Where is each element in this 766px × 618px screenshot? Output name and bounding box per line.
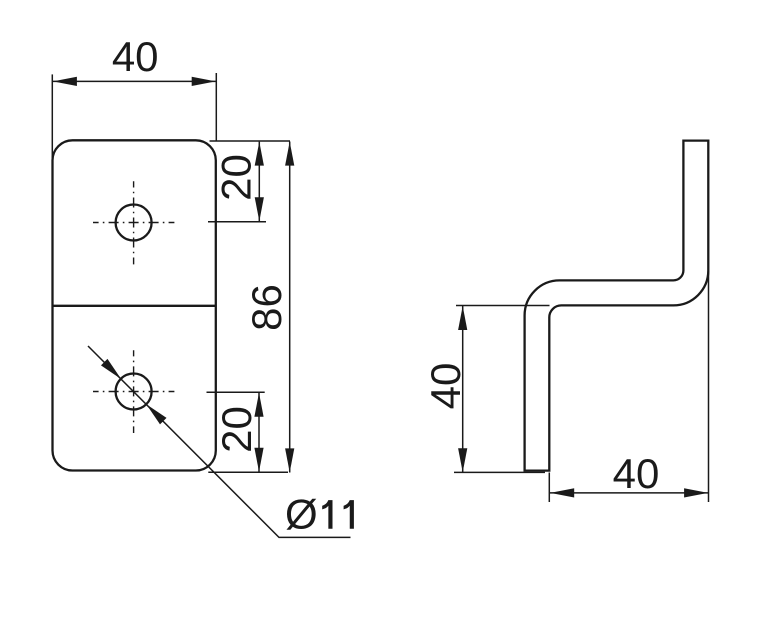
leader Ø11: arrow to hole upper-left bbox=[101, 359, 124, 382]
hole H1 bbox=[116, 205, 152, 241]
hole H2 bbox=[116, 374, 152, 410]
dim 40 vertical (side view): dimension line bbox=[462, 306, 464, 472]
Z-bracket outline (side view) bbox=[525, 141, 709, 471]
dim 40 vertical (side view): extension line top bbox=[456, 305, 550, 307]
dim 86: arrow down bbox=[285, 448, 294, 472]
svg-text:20: 20 bbox=[213, 154, 260, 201]
dim 20 top: arrow down bbox=[255, 197, 264, 221]
svg-text:20: 20 bbox=[213, 406, 260, 453]
dim 86: dimension line bbox=[289, 142, 291, 473]
dim 40 top: extension line left bbox=[51, 74, 53, 160]
dim 40 vertical: arrow down bbox=[458, 448, 467, 472]
svg-text:86: 86 bbox=[243, 284, 290, 331]
leader Ø11: arrow to hole lower-right bbox=[143, 401, 166, 424]
dim 20 top: arrow up bbox=[255, 142, 264, 166]
dim 40 horizontal: arrow left bbox=[550, 488, 574, 497]
dim 20 bottom: arrow down bbox=[254, 448, 263, 472]
bend line bbox=[53, 305, 216, 307]
centerline H2 vertical bbox=[133, 350, 135, 433]
dim 86: arrow up bbox=[285, 142, 294, 166]
dim 40 top: dimension line bbox=[53, 80, 216, 82]
plate outline (front view) bbox=[53, 140, 216, 470]
dim 40 horizontal (side view): extension line left bbox=[548, 473, 550, 503]
svg-text:40: 40 bbox=[112, 33, 159, 80]
leader label digit 1 (first) bbox=[322, 500, 332, 529]
dim 40 vertical: arrow up bbox=[458, 306, 467, 330]
dim 40 top: arrow left bbox=[53, 77, 77, 86]
centerline H2 horizontal bbox=[93, 391, 174, 393]
leader label digit 1 (second) bbox=[344, 500, 354, 529]
dim 20 bottom: extension line at hole2 center bbox=[207, 391, 265, 393]
dim 20 top: dimension line bbox=[258, 142, 260, 222]
svg-text:40: 40 bbox=[613, 450, 660, 497]
centerline H1 vertical bbox=[133, 181, 135, 264]
dim 40 horizontal (side view): extension line right bbox=[708, 271, 710, 502]
dim 40 horizontal (side view): dimension line bbox=[550, 492, 708, 494]
dim 40 top: extension line right bbox=[215, 73, 217, 141]
leader Ø11: line bbox=[88, 346, 351, 537]
svg-text:40: 40 bbox=[422, 363, 469, 410]
dim 20 top: extension line top bbox=[210, 140, 291, 142]
centerline H1 horizontal bbox=[93, 222, 174, 224]
dim 20 bottom: dimension line bbox=[258, 393, 260, 472]
dim 40 horizontal: arrow right bbox=[684, 488, 708, 497]
svg-text:Ø: Ø bbox=[285, 491, 318, 538]
dim 20 bottom: arrow up bbox=[254, 393, 263, 417]
dim 40 vertical (side view): extension line bottom bbox=[454, 471, 545, 473]
dim 40 top: arrow right bbox=[192, 77, 216, 86]
dim 20 top: extension line at hole1 center bbox=[208, 221, 266, 223]
dim 20 bottom: extension line bottom bbox=[208, 471, 288, 473]
